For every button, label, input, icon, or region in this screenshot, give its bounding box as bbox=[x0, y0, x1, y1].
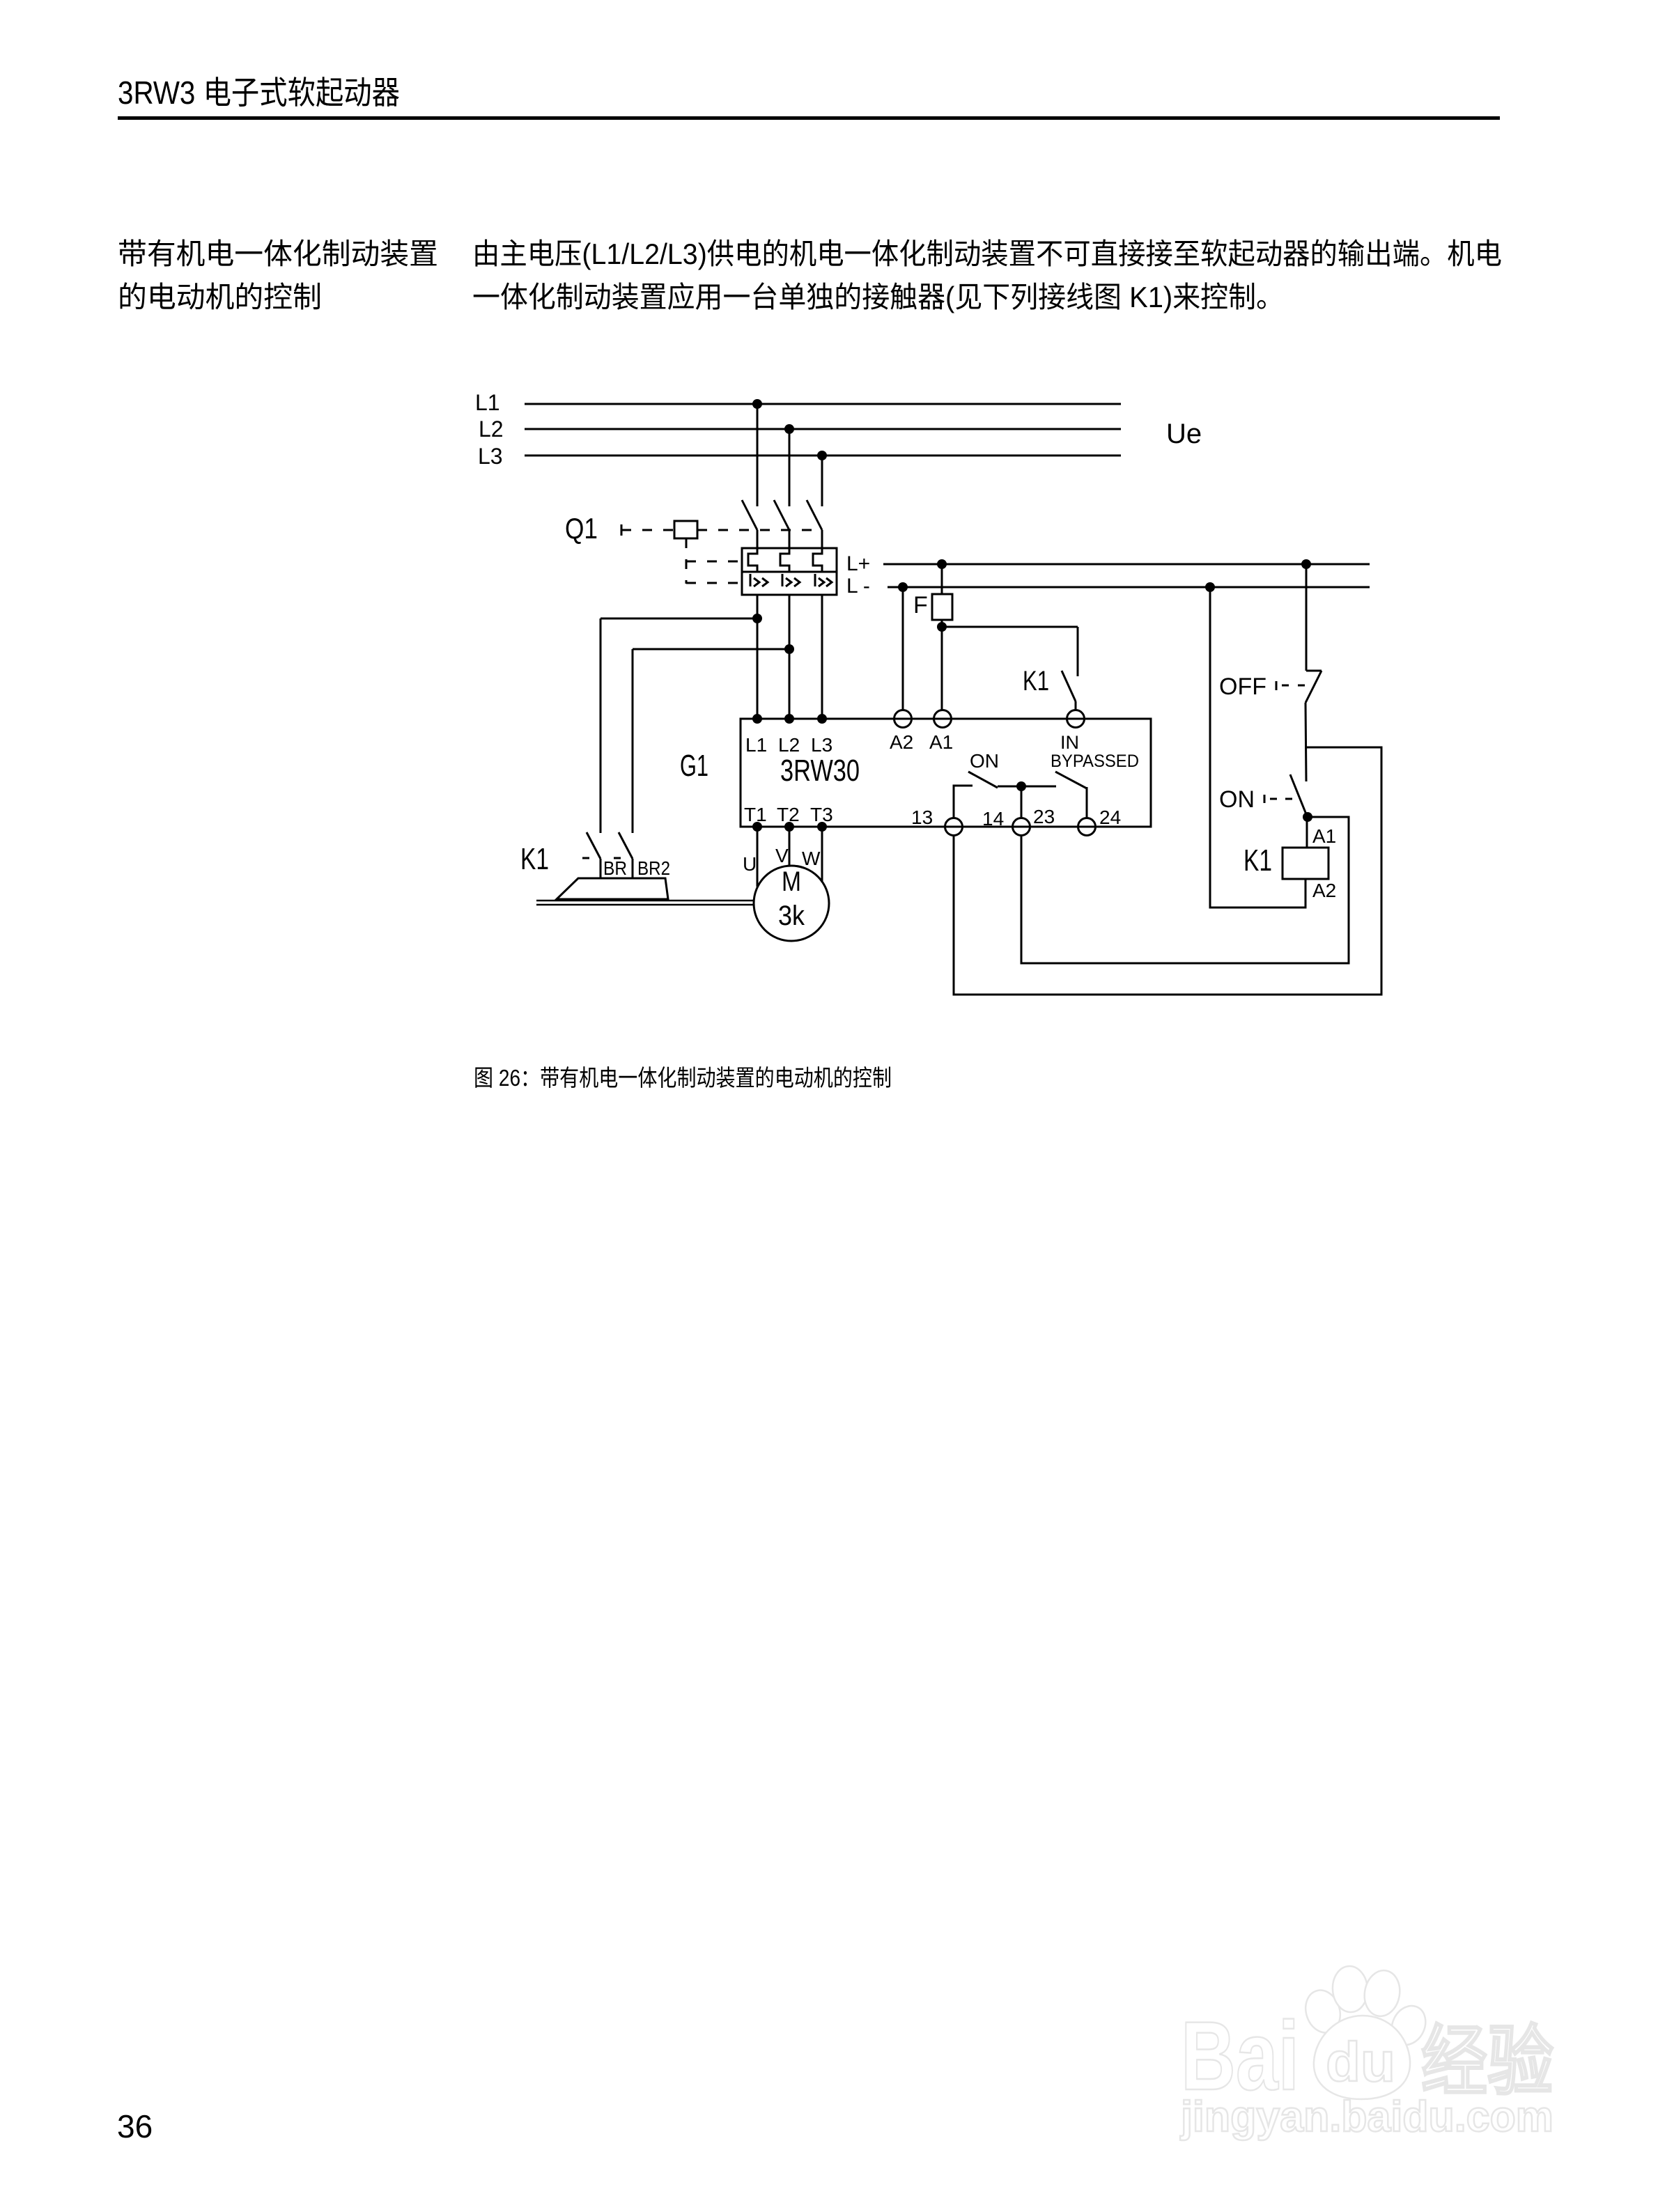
svg-text:A1: A1 bbox=[1312, 825, 1336, 847]
svg-text:T3: T3 bbox=[810, 804, 833, 825]
svg-text:K1: K1 bbox=[1023, 666, 1049, 696]
svg-text:BYPASSED: BYPASSED bbox=[1051, 751, 1139, 771]
svg-text:24: 24 bbox=[1099, 807, 1121, 828]
svg-text:U: U bbox=[743, 853, 757, 875]
svg-text:L2: L2 bbox=[778, 734, 800, 756]
svg-text:K1: K1 bbox=[1243, 843, 1272, 878]
svg-text:L -: L - bbox=[846, 575, 870, 598]
svg-text:一体化制动装置应用一台单独的接触器(见下列接线图 K1)来控: 一体化制动装置应用一台单独的接触器(见下列接线图 K1)来控制。 bbox=[472, 281, 1284, 313]
svg-text:图 26：带有机电一体化制动装置的电动机的控制: 图 26：带有机电一体化制动装置的电动机的控制 bbox=[474, 1065, 892, 1091]
svg-text:M: M bbox=[782, 866, 801, 897]
svg-text:L+: L+ bbox=[846, 552, 870, 575]
svg-text:K1: K1 bbox=[520, 842, 549, 876]
svg-text:ON: ON bbox=[1219, 786, 1255, 813]
svg-text:du: du bbox=[1326, 2031, 1395, 2093]
svg-text:13: 13 bbox=[911, 807, 933, 828]
svg-text:L1: L1 bbox=[745, 734, 767, 756]
svg-text:经验: 经验 bbox=[1421, 2019, 1554, 2105]
svg-text:BR2: BR2 bbox=[637, 857, 670, 879]
svg-text:BR: BR bbox=[603, 857, 627, 879]
svg-text:F: F bbox=[913, 592, 928, 618]
svg-text:L1: L1 bbox=[475, 390, 500, 415]
svg-text:A2: A2 bbox=[890, 731, 913, 753]
svg-text:Ue: Ue bbox=[1166, 419, 1202, 449]
svg-text:的电动机的控制: 的电动机的控制 bbox=[118, 281, 322, 313]
svg-text:T2: T2 bbox=[777, 804, 800, 825]
svg-text:14: 14 bbox=[982, 808, 1004, 829]
svg-text:L3: L3 bbox=[478, 444, 503, 469]
svg-text:36: 36 bbox=[117, 2108, 153, 2144]
svg-text:jingyan.baidu.com: jingyan.baidu.com bbox=[1180, 2093, 1554, 2141]
svg-text:带有机电一体化制动装置: 带有机电一体化制动装置 bbox=[118, 237, 438, 270]
svg-text:3RW3 电子式软起动器: 3RW3 电子式软起动器 bbox=[118, 75, 400, 111]
svg-text:A1: A1 bbox=[929, 731, 953, 753]
svg-text:G1: G1 bbox=[680, 749, 708, 783]
svg-text:由主电压(L1/L2/L3)供电的机电一体化制动装置不可直接: 由主电压(L1/L2/L3)供电的机电一体化制动装置不可直接接至软起动器的输出端… bbox=[472, 237, 1502, 270]
svg-text:3RW30: 3RW30 bbox=[780, 754, 860, 788]
svg-text:OFF: OFF bbox=[1219, 673, 1266, 700]
svg-text:A2: A2 bbox=[1312, 880, 1336, 901]
svg-text:V: V bbox=[775, 845, 789, 866]
svg-text:L3: L3 bbox=[811, 734, 832, 756]
svg-text:L2: L2 bbox=[479, 416, 504, 442]
svg-text:IN: IN bbox=[1060, 732, 1079, 753]
svg-text:23: 23 bbox=[1033, 806, 1055, 827]
svg-text:Q1: Q1 bbox=[565, 512, 598, 545]
svg-text:T1: T1 bbox=[744, 804, 767, 825]
svg-text:ON: ON bbox=[970, 750, 999, 772]
svg-text:3k: 3k bbox=[778, 901, 805, 931]
svg-text:W: W bbox=[802, 848, 821, 869]
